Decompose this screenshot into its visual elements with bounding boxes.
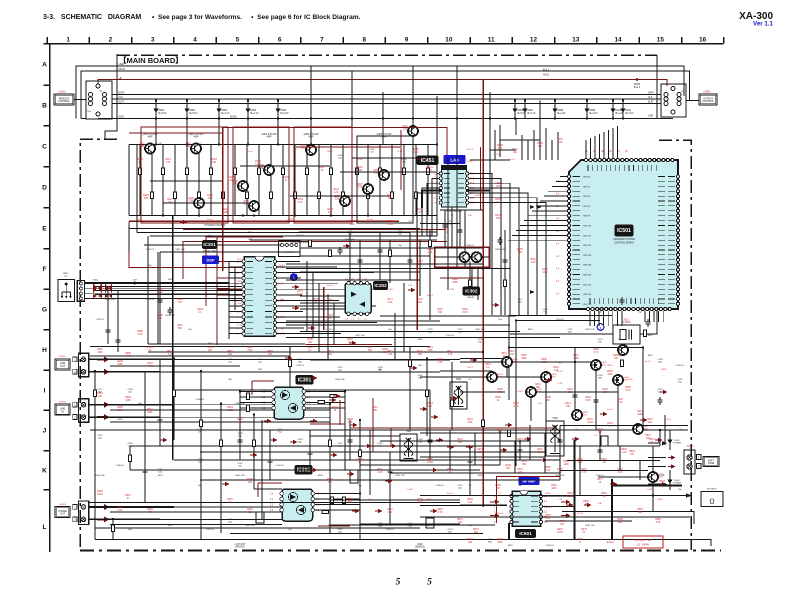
IC501 left pins	[567, 175, 570, 178]
svg-text:C227: C227	[457, 329, 463, 331]
svg-text:R181: R181	[437, 309, 443, 311]
svg-text:R133: R133	[297, 199, 303, 201]
IC302 body	[282, 489, 313, 521]
svg-text:AMP: AMP	[267, 136, 272, 139]
svg-text:6.8K: 6.8K	[586, 400, 591, 402]
top grid ruler	[47, 37, 724, 43]
transistor Q605	[591, 360, 601, 370]
wire IC201 left feeds	[229, 262, 242, 340]
svg-text:4.7K: 4.7K	[498, 392, 503, 394]
svg-text:C277: C277	[97, 389, 103, 391]
wire bottom half long runs	[88, 347, 688, 529]
svg-text:R395: R395	[97, 491, 103, 493]
diode D806	[514, 101, 516, 119]
IC201 pins	[242, 260, 245, 263]
IC301 pins	[272, 390, 276, 394]
diode D811	[622, 101, 624, 119]
svg-text:10K: 10K	[496, 488, 501, 490]
transistor Q305	[379, 170, 389, 180]
svg-text:R405: R405	[227, 351, 233, 353]
svg-text:1: 1	[600, 326, 602, 330]
svg-text:R449 10K: R449 10K	[95, 475, 105, 477]
svg-text:2SB: 2SB	[244, 204, 249, 206]
svg-text:R301: R301	[467, 161, 473, 163]
svg-text:120K: 120K	[97, 352, 103, 354]
svg-text:2SB: 2SB	[358, 187, 363, 189]
svg-text:R233: R233	[477, 449, 483, 451]
svg-text:R453 10K: R453 10K	[245, 525, 255, 527]
svg-text:C259: C259	[197, 459, 203, 461]
crystal X501 marker	[597, 324, 604, 331]
svg-text:R379: R379	[581, 529, 587, 531]
svg-text:1K: 1K	[599, 482, 602, 484]
svg-text:R173: R173	[313, 299, 319, 301]
svg-text:2SC: 2SC	[552, 377, 557, 379]
svg-text:2.2K: 2.2K	[334, 192, 339, 194]
svg-text:C249: C249	[297, 439, 303, 441]
wire dark red rail shadow	[296, 130, 481, 210]
wire IC451 left fanout	[417, 174, 439, 237]
svg-text:C283: C283	[127, 389, 133, 391]
svg-text:1K: 1K	[321, 170, 324, 172]
svg-text:AMP: AMP	[309, 136, 314, 139]
IC202 pins	[347, 282, 350, 285]
svg-text:C215: C215	[447, 221, 453, 223]
svg-text:B+2.4: B+2.4	[607, 409, 614, 411]
svg-text:C229: C229	[477, 339, 483, 341]
svg-text:R281: R281	[177, 299, 183, 301]
transformer T602	[400, 434, 417, 461]
transistor Q608	[648, 472, 658, 482]
svg-text:CXD3064R SYSTEM: CXD3064R SYSTEM	[613, 239, 635, 241]
IC202 body	[345, 284, 371, 314]
svg-text:JW55: JW55	[327, 525, 333, 527]
svg-text:3: 3	[151, 36, 155, 43]
wire IC601 connections	[420, 496, 575, 517]
svg-text:2.2K: 2.2K	[622, 452, 627, 454]
svg-text:R385: R385	[655, 519, 661, 521]
svg-text:DATA: DATA	[648, 92, 654, 95]
svg-text:R347: R347	[649, 439, 655, 441]
svg-text:R223: R223	[567, 389, 573, 391]
svg-text:100K: 100K	[477, 452, 483, 454]
svg-text:B+1.4: B+1.4	[327, 285, 334, 287]
svg-text:XRST2: XRST2	[583, 186, 591, 188]
wire bottom half verticals	[108, 287, 640, 525]
svg-text:R387: R387	[97, 349, 103, 351]
svg-text:B+2.4V: B+2.4V	[251, 112, 259, 115]
IC451 blue marker	[444, 156, 465, 164]
svg-text:CN101: CN101	[58, 91, 66, 94]
svg-text:4.7K: 4.7K	[538, 403, 543, 405]
transistor Q302	[191, 144, 201, 154]
svg-text:6: 6	[278, 36, 282, 43]
svg-text:R413: R413	[327, 351, 333, 353]
wire dark red branches	[217, 230, 483, 345]
svg-text:2SB: 2SB	[233, 184, 238, 186]
capacitor symbols	[143, 467, 148, 475]
svg-text:10K: 10K	[328, 499, 332, 501]
svg-text:T601: T601	[456, 378, 462, 381]
wire mid-right mesh	[440, 348, 688, 460]
svg-text:C237: C237	[337, 367, 343, 369]
svg-text:R211: R211	[372, 407, 378, 409]
svg-text:0.022: 0.022	[475, 195, 481, 197]
svg-text:0.022: 0.022	[287, 219, 293, 221]
svg-text:B+1.4: B+1.4	[237, 259, 244, 261]
svg-text:IC201: IC201	[203, 242, 216, 247]
svg-text:【MAIN BOARD】: 【MAIN BOARD】	[119, 55, 183, 65]
svg-text:R145: R145	[497, 145, 503, 147]
svg-text:R327: R327	[645, 435, 651, 437]
svg-text:LINE: LINE	[119, 64, 125, 66]
svg-text:B+1.4: B+1.4	[645, 361, 652, 363]
transformer T601	[450, 382, 467, 409]
svg-text:C356 0.1: C356 0.1	[386, 529, 395, 531]
wire partial horizontals inside block	[150, 158, 436, 203]
svg-text:R165: R165	[427, 249, 433, 251]
wire thick verticals right of IC601	[509, 440, 682, 540]
svg-text:R149: R149	[537, 143, 543, 145]
svg-text:POWER: POWER	[673, 483, 682, 485]
svg-text:10K: 10K	[598, 503, 602, 505]
svg-text:R367: R367	[601, 493, 607, 495]
IC501 top pins	[584, 158, 587, 161]
svg-text:2SC: 2SC	[513, 362, 518, 364]
svg-text:R103: R103	[211, 159, 217, 161]
svg-text:CN601: CN601	[59, 356, 67, 358]
svg-text:15: 15	[657, 36, 665, 43]
svg-text:0.022: 0.022	[517, 391, 523, 393]
svg-text:(J) : JAPAN: (J) : JAPAN	[637, 543, 650, 546]
svg-text:R293: R293	[593, 349, 599, 351]
svg-text:2.2K: 2.2K	[168, 354, 173, 356]
svg-text:R107: R107	[255, 161, 261, 163]
svg-text:J: J	[43, 428, 47, 435]
svg-text:R361: R361	[551, 485, 557, 487]
transistor Q310	[340, 196, 350, 206]
svg-text:3-3. SCHEMATIC DIAGRAM: 3-3. SCHEMATIC DIAGRAM	[43, 14, 141, 21]
svg-text:3.3K: 3.3K	[138, 334, 143, 336]
svg-text:(FRONT): (FRONT)	[235, 547, 245, 549]
svg-text:4.7K: 4.7K	[408, 285, 413, 287]
svg-text:2SB: 2SB	[140, 146, 145, 148]
svg-text:Q301 DTC143: Q301 DTC143	[143, 134, 159, 136]
svg-text:C205: C205	[401, 159, 407, 161]
svg-text:JW19: JW19	[417, 339, 423, 341]
IC202 label box	[374, 282, 388, 290]
svg-text:4.7K: 4.7K	[328, 221, 333, 223]
svg-text:0.022: 0.022	[627, 379, 633, 381]
svg-text:R401: R401	[167, 351, 173, 353]
wire long mid horizontals	[129, 145, 510, 269]
svg-text:R377: R377	[559, 521, 565, 523]
svg-text:B+1.4: B+1.4	[497, 513, 504, 515]
svg-text:R169: R169	[452, 279, 458, 281]
svg-text:120K: 120K	[607, 374, 613, 376]
svg-text:B+2.4: B+2.4	[417, 159, 424, 161]
svg-text:10K: 10K	[468, 542, 473, 544]
svg-text:R315: R315	[327, 299, 333, 301]
svg-text:0.022: 0.022	[237, 303, 243, 305]
svg-text:B+3.1: B+3.1	[543, 70, 550, 72]
scattered dark red arrows	[285, 356, 293, 361]
wire DSP section frame	[158, 216, 437, 345]
red arrows into IC601	[490, 500, 500, 505]
IC302 label box	[295, 466, 312, 475]
svg-text:Ver 1.1: Ver 1.1	[753, 20, 774, 27]
diode D808	[554, 101, 556, 119]
svg-text:R123: R123	[137, 159, 143, 161]
svg-text:XRST6: XRST6	[583, 206, 591, 208]
connector CN851	[86, 81, 112, 119]
svg-text:R331: R331	[587, 419, 593, 421]
svg-text:R397: R397	[125, 495, 131, 497]
svg-text:DGND: DGND	[230, 117, 237, 119]
Q pair label box	[463, 287, 480, 295]
arrow into jack	[686, 494, 692, 498]
svg-text:R399: R399	[147, 347, 153, 349]
svg-text:R283: R283	[197, 309, 203, 311]
svg-text:C320 0.1: C320 0.1	[446, 335, 455, 337]
svg-text:3.3K: 3.3K	[388, 512, 393, 514]
svg-text:MN66271RA: MN66271RA	[203, 250, 216, 253]
svg-text:IC601: IC601	[519, 531, 532, 536]
svg-text:B+2.4: B+2.4	[367, 219, 374, 221]
wire rail E lower	[129, 215, 437, 217]
svg-text:R321: R321	[553, 367, 559, 369]
svg-text:C364 0.1: C364 0.1	[296, 365, 305, 367]
svg-text:4.7K: 4.7K	[126, 356, 131, 358]
svg-text:B+0.6V: B+0.6V	[626, 112, 634, 115]
resistors near IC302	[331, 497, 334, 504]
svg-text:LA4: LA4	[450, 158, 459, 163]
svg-text:OUT: OUT	[60, 513, 66, 516]
svg-text:Ω: Ω	[709, 499, 714, 506]
svg-text:B+1.4: B+1.4	[207, 219, 214, 221]
svg-text:R109: R109	[283, 177, 289, 179]
svg-text:C308 0.1: C308 0.1	[466, 245, 475, 247]
svg-text:★AU2: ★AU2	[606, 540, 614, 544]
svg-text:R351: R351	[521, 461, 527, 463]
svg-text:R411: R411	[307, 347, 313, 349]
svg-text:C257: C257	[457, 485, 463, 487]
svg-text:0.022: 0.022	[407, 489, 413, 491]
svg-text:C336 0.1: C336 0.1	[596, 475, 605, 477]
svg-text:T602: T602	[406, 430, 412, 433]
IC301 label box	[296, 376, 313, 385]
wire center mesh extra	[90, 125, 558, 356]
svg-text:B+2.0V: B+2.0V	[281, 112, 289, 115]
red arrows CN603	[97, 504, 110, 510]
svg-text:R267: R267	[557, 529, 563, 531]
svg-text:R365: R365	[583, 501, 589, 503]
svg-text:120K: 120K	[573, 358, 579, 360]
svg-text:R297: R297	[521, 355, 527, 357]
svg-text:R389: R389	[125, 353, 131, 355]
svg-text:CONTROL SERVO: CONTROL SERVO	[614, 243, 634, 245]
svg-text:R381: R381	[617, 519, 623, 521]
crystal X501	[613, 325, 640, 344]
svg-text:L-CH OUT: L-CH OUT	[235, 544, 246, 546]
svg-text:CN603: CN603	[59, 504, 67, 506]
diode D809	[586, 101, 588, 119]
svg-text:R261: R261	[437, 509, 443, 511]
wire output control to CN852	[686, 100, 699, 102]
svg-text:R141: R141	[417, 209, 423, 211]
svg-text:120K: 120K	[417, 502, 423, 504]
svg-text:100K: 100K	[125, 400, 131, 402]
svg-text:R179: R179	[417, 299, 423, 301]
svg-text:4.7K: 4.7K	[448, 354, 453, 356]
svg-text:B+5.0V: B+5.0V	[190, 112, 198, 115]
svg-text:R207: R207	[332, 407, 338, 409]
svg-text:4.7K: 4.7K	[678, 429, 683, 431]
svg-text:4.7K: 4.7K	[428, 252, 433, 254]
svg-text:7: 7	[320, 36, 324, 43]
svg-text:R263: R263	[467, 539, 473, 541]
svg-text:B+1.4: B+1.4	[247, 151, 254, 153]
svg-text:33K: 33K	[474, 532, 479, 534]
svg-text:2: 2	[109, 36, 113, 43]
svg-text:R195: R195	[117, 361, 123, 363]
svg-text:4.7K: 4.7K	[148, 366, 153, 368]
IC601 blue marker	[519, 478, 539, 485]
svg-text:1K: 1K	[359, 462, 362, 464]
svg-text:GND: GND	[417, 544, 422, 546]
svg-text:R299: R299	[541, 359, 547, 361]
svg-text:AMP: AMP	[148, 136, 153, 139]
svg-text:Q301: Q301	[139, 144, 145, 146]
svg-text:C241: C241	[417, 375, 423, 377]
svg-text:CN602: CN602	[59, 402, 67, 404]
connector CN603	[79, 501, 89, 525]
svg-text:3.3K: 3.3K	[546, 470, 551, 472]
svg-text:10K: 10K	[614, 358, 619, 360]
svg-text:R249: R249	[147, 509, 153, 511]
svg-text:6.8K: 6.8K	[414, 152, 419, 154]
svg-text:R373: R373	[473, 529, 479, 531]
svg-text:C267: C267	[337, 529, 343, 531]
wire mid mesh horizontals	[95, 287, 560, 361]
transistor Q308	[194, 198, 204, 208]
svg-text:120K: 120K	[637, 414, 643, 416]
svg-text:CN: CN	[681, 91, 685, 93]
svg-text:C247: C247	[277, 429, 283, 431]
wire phones line	[460, 496, 694, 525]
red arrows CN601	[97, 356, 110, 362]
main board outline bottom (dash-dot)	[80, 550, 721, 552]
svg-text:2.2K: 2.2K	[498, 148, 503, 150]
IC201 blue marker	[203, 256, 219, 264]
svg-text:0.022: 0.022	[227, 410, 233, 412]
wire dark red near opamps	[252, 381, 554, 526]
svg-text:IC301: IC301	[298, 377, 312, 383]
svg-text:XRST16: XRST16	[583, 255, 592, 257]
svg-text:R277: R277	[597, 429, 603, 431]
svg-text:XRST10: XRST10	[583, 226, 592, 228]
svg-text:C219: C219	[542, 309, 548, 311]
svg-text:C231: C231	[227, 359, 233, 361]
wire dark red stubs into IC201	[217, 262, 242, 295]
svg-text:R287: R287	[177, 325, 183, 327]
svg-text:SYSTEM CONTROL: SYSTEM CONTROL	[204, 225, 226, 227]
svg-text:R425 10K: R425 10K	[585, 329, 595, 331]
svg-text:R163: R163	[542, 269, 548, 271]
wire B+ rail vertical (dark red)	[482, 80, 484, 508]
svg-text:XRST8: XRST8	[583, 216, 591, 218]
pin number squares CN602	[73, 402, 77, 407]
svg-text:33K: 33K	[388, 198, 393, 200]
svg-text:0.022: 0.022	[647, 489, 653, 491]
svg-text:R153: R153	[495, 183, 501, 185]
svg-text:6.8K: 6.8K	[546, 518, 551, 520]
wire IC451 right fanout	[469, 174, 546, 316]
svg-text:C233: C233	[257, 359, 263, 361]
svg-text:9: 9	[405, 36, 409, 43]
wire thick signal path to IC451	[422, 191, 490, 208]
svg-text:C213: C213	[397, 231, 403, 233]
svg-text:R307: R307	[557, 469, 563, 471]
svg-text:JW11: JW11	[117, 419, 123, 421]
amplifier stage boxes	[141, 127, 228, 223]
svg-text:33K: 33K	[538, 146, 543, 148]
svg-text:F: F	[42, 266, 46, 273]
svg-text:R303: R303	[601, 459, 607, 461]
svg-text:R137: R137	[349, 221, 355, 223]
svg-text:6.8K: 6.8K	[248, 350, 253, 352]
svg-text:R127: R127	[167, 199, 173, 201]
svg-text:R339: R339	[545, 397, 551, 399]
svg-text:CONTROL: CONTROL	[58, 100, 70, 103]
svg-text:R121: R121	[427, 167, 433, 169]
svg-text:4.7K: 4.7K	[368, 499, 373, 501]
svg-text:100K: 100K	[659, 484, 665, 486]
svg-text:XRST4: XRST4	[583, 196, 591, 198]
svg-text:2.2K: 2.2K	[468, 502, 473, 504]
svg-text:R203: R203	[227, 407, 233, 409]
headphone jack	[701, 492, 723, 507]
svg-text:JW39: JW39	[477, 475, 483, 477]
svg-text:10K: 10K	[212, 162, 217, 164]
svg-text:JW59: JW59	[507, 545, 513, 547]
svg-text:120K: 120K	[563, 464, 569, 466]
svg-text:Q308: Q308	[188, 198, 194, 200]
svg-text:0.022: 0.022	[297, 294, 303, 296]
wire lower right long runs	[330, 471, 649, 526]
svg-text:0.022: 0.022	[545, 507, 551, 509]
transistor Q601	[487, 372, 497, 382]
svg-text:R305: R305	[621, 449, 627, 451]
svg-text:R413 10K: R413 10K	[165, 315, 175, 317]
diodes D601 D602	[669, 430, 671, 450]
svg-text:C312 0.1: C312 0.1	[146, 299, 155, 301]
svg-text:10K: 10K	[118, 410, 123, 412]
svg-text:6.8K: 6.8K	[558, 142, 563, 144]
svg-text:C269: C269	[377, 523, 383, 525]
svg-text:R363: R363	[567, 493, 573, 495]
svg-text:C207: C207	[247, 229, 253, 231]
transistor Q607	[633, 424, 643, 434]
svg-text:R225: R225	[617, 399, 623, 401]
svg-text:XRST0: XRST0	[583, 177, 591, 179]
svg-text:120K: 120K	[223, 212, 229, 214]
svg-text:R245: R245	[247, 479, 253, 481]
transistor Q306	[238, 181, 248, 191]
svg-text:R259: R259	[417, 499, 423, 501]
svg-text:6.8K: 6.8K	[118, 510, 123, 512]
svg-text:R229: R229	[497, 389, 503, 391]
